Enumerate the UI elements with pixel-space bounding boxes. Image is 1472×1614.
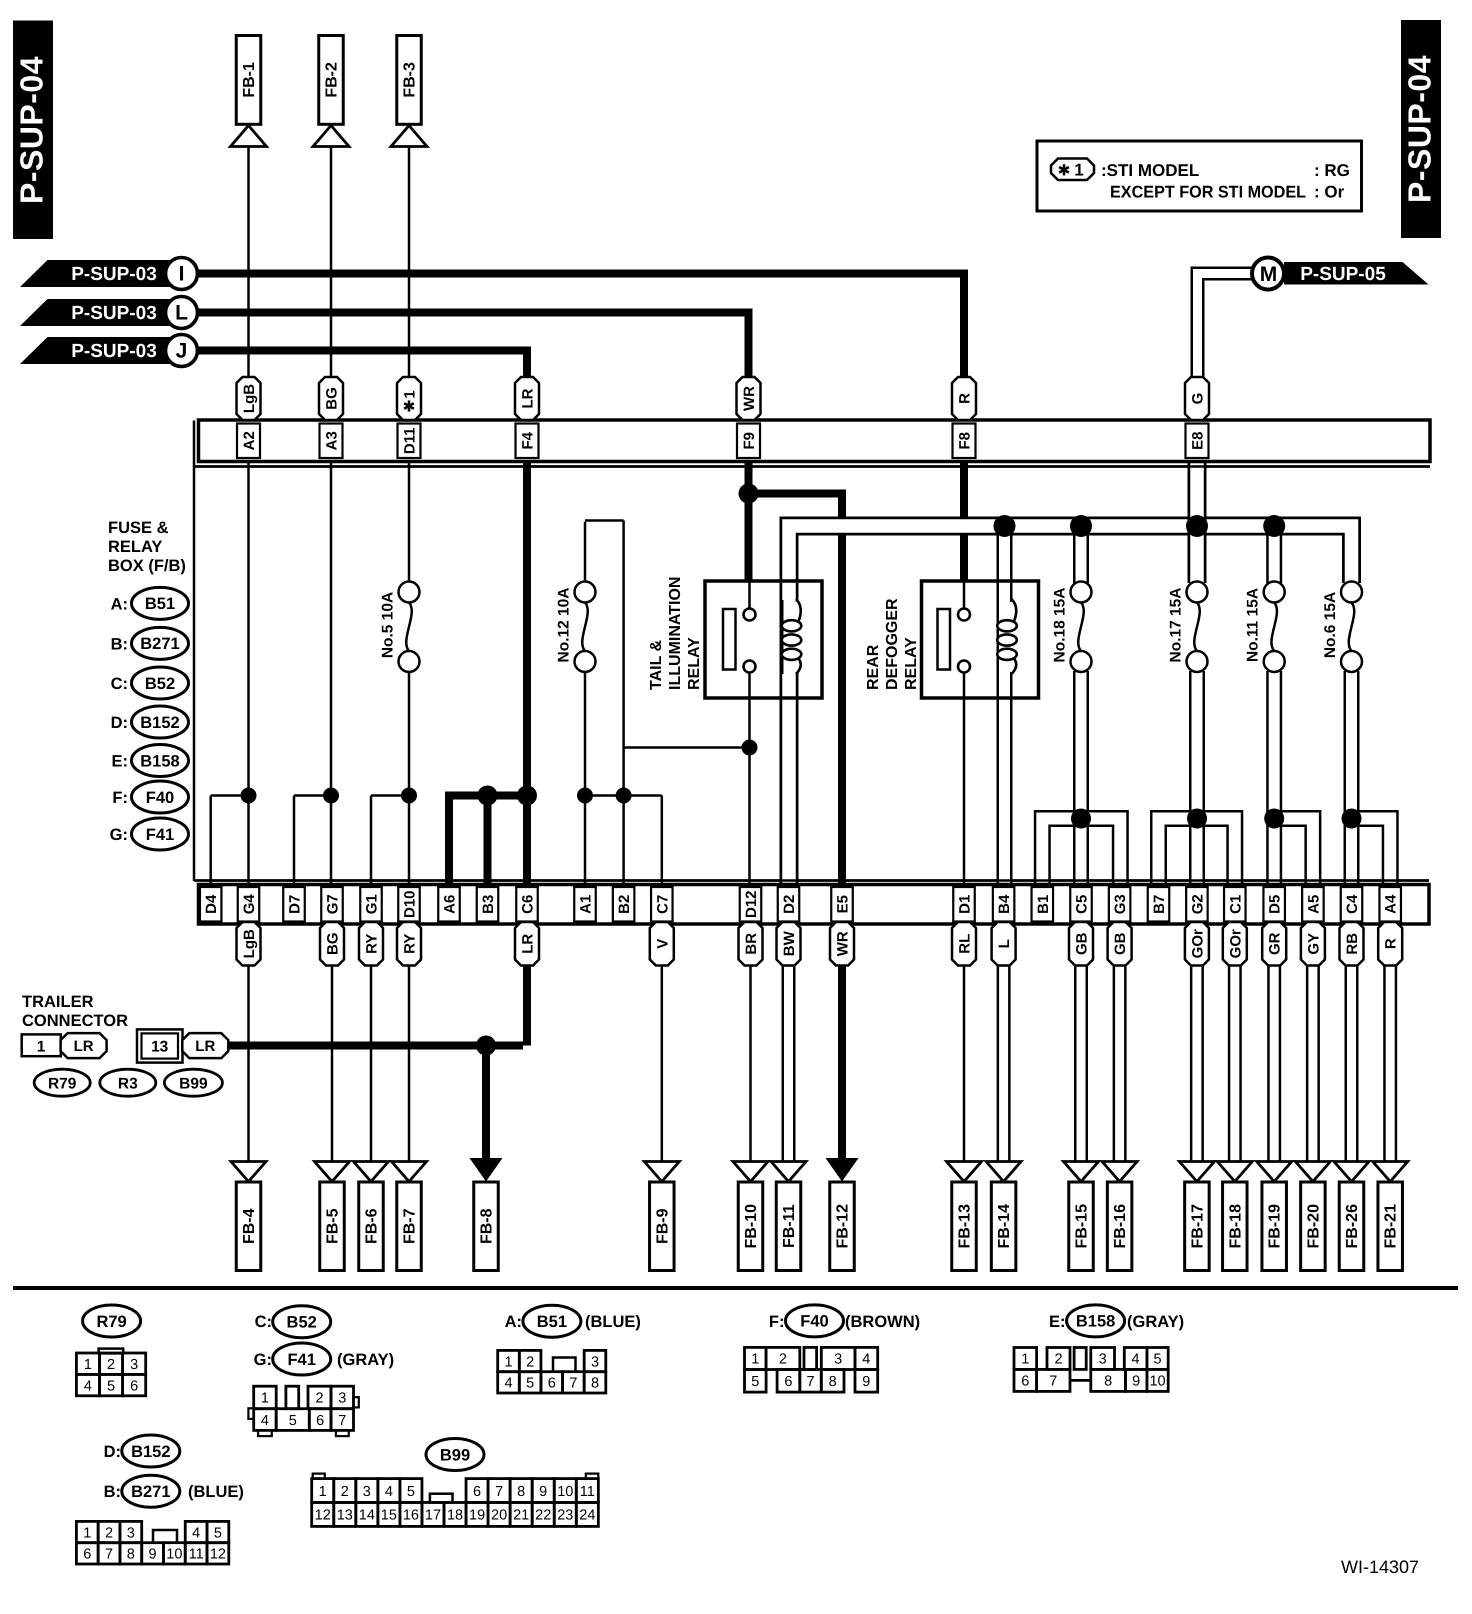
trailer tag LR	[61, 1033, 107, 1058]
svg-text:1: 1	[1021, 1352, 1029, 1368]
svg-text:2: 2	[107, 1357, 115, 1373]
svg-text:BOX (F/B): BOX (F/B)	[108, 557, 186, 575]
svg-text:1: 1	[402, 390, 419, 398]
connector FB-11	[771, 1162, 806, 1182]
svg-text:2: 2	[526, 1354, 534, 1370]
svg-text:22: 22	[535, 1508, 551, 1524]
connector FB-13	[947, 1162, 982, 1182]
svg-text:12: 12	[210, 1547, 226, 1563]
pin B7	[1148, 887, 1170, 922]
wire I banner to F8 (thick)	[198, 270, 964, 278]
wire E5 to FB-12 (thick)	[838, 966, 846, 1161]
pin A4	[1379, 887, 1401, 922]
junction rail No.17	[1186, 515, 1208, 537]
svg-text:5: 5	[751, 1374, 759, 1390]
pinout grid R79	[99, 1349, 124, 1354]
connector FB-1	[236, 36, 261, 125]
svg-text:F8: F8	[957, 432, 974, 450]
svg-text:P-SUP-04: P-SUP-04	[14, 56, 50, 204]
trailer pin 1 box	[22, 1034, 61, 1056]
wire color tag WR below bus	[830, 922, 854, 966]
pinout grid F40	[745, 1347, 767, 1369]
svg-text:B2: B2	[616, 895, 633, 914]
fuse box left edge	[193, 421, 196, 882]
svg-text:RELAY: RELAY	[903, 637, 920, 690]
svg-text:4: 4	[84, 1378, 92, 1394]
svg-text:BR: BR	[743, 933, 760, 955]
svg-text:24: 24	[579, 1508, 595, 1524]
pin F4	[516, 424, 539, 459]
svg-text:5: 5	[214, 1525, 222, 1541]
svg-text:FB-11: FB-11	[781, 1204, 798, 1248]
svg-text:1: 1	[319, 1484, 327, 1500]
svg-text:13: 13	[337, 1508, 353, 1524]
svg-text:FUSE &: FUSE &	[108, 519, 169, 537]
svg-text:8: 8	[591, 1376, 599, 1392]
junction branch G2	[1187, 809, 1207, 829]
junction branch C4	[1342, 809, 1362, 829]
svg-text:G7: G7	[325, 894, 342, 914]
svg-text:6: 6	[548, 1376, 556, 1392]
svg-text:4: 4	[261, 1413, 269, 1429]
wire C6 to trailer connector (thick)	[523, 966, 531, 1046]
wire color tag LgB below bus	[237, 922, 261, 966]
pinout grid B271	[76, 1521, 98, 1542]
svg-text:FB-14: FB-14	[996, 1204, 1013, 1249]
svg-text:7: 7	[105, 1547, 113, 1563]
junction C6	[517, 786, 537, 806]
pin B4	[993, 887, 1015, 922]
junction rail B4	[994, 515, 1016, 537]
svg-text:6: 6	[473, 1484, 481, 1500]
wire color tag V below bus	[650, 922, 674, 966]
svg-text:8: 8	[127, 1547, 135, 1563]
svg-text:B271: B271	[140, 635, 179, 653]
wire color tag R below bus	[1378, 922, 1402, 966]
wire branch to B3 (thick)	[484, 796, 492, 887]
upper bus lower rail line	[194, 465, 1430, 468]
pin D10	[398, 887, 420, 922]
svg-text:11: 11	[580, 1484, 595, 1500]
svg-text:: RG: : RG	[1314, 161, 1350, 180]
svg-text:GY: GY	[1305, 933, 1322, 955]
svg-text:D5: D5	[1267, 895, 1284, 914]
svg-text:1: 1	[83, 1525, 91, 1541]
connector ref R79 pinout label	[83, 1305, 141, 1337]
connector ref C: B52	[273, 1306, 331, 1338]
svg-text:P-SUP-03: P-SUP-03	[71, 341, 157, 362]
connector FB-6	[354, 1162, 389, 1182]
wire color tag LR at top	[515, 377, 539, 420]
wire color tag G at top	[1185, 377, 1209, 420]
svg-text:FB-21: FB-21	[1383, 1204, 1400, 1249]
svg-text:A:: A:	[505, 1313, 522, 1331]
svg-text:R: R	[1383, 938, 1400, 949]
svg-text:ILLUMINATION: ILLUMINATION	[667, 577, 684, 690]
junction D12	[742, 740, 758, 756]
wire G7 to FB-5	[331, 966, 334, 1163]
svg-text:No.17 15A: No.17 15A	[1168, 588, 1185, 663]
svg-text:2: 2	[779, 1352, 787, 1368]
wire D1 to FB-13	[963, 966, 966, 1163]
pin D11	[398, 424, 421, 459]
connector FB-9	[644, 1162, 679, 1182]
svg-text:E8: E8	[1190, 432, 1207, 450]
wire B4 to FB-14 (hollow)	[997, 964, 1011, 1162]
svg-text:D:: D:	[111, 714, 128, 732]
svg-text:E:: E:	[1049, 1313, 1066, 1331]
svg-text:23: 23	[557, 1508, 573, 1524]
pin E5	[831, 887, 853, 922]
svg-text:R3: R3	[118, 1076, 138, 1093]
wire J banner to F4 (thick)	[198, 347, 527, 355]
svg-text:R79: R79	[96, 1313, 126, 1331]
wire E8 to fuse No.17 (hollow)	[1188, 463, 1207, 583]
fuse No.5 10A	[408, 582, 411, 584]
junction A1	[577, 788, 593, 804]
connector FB-7	[392, 1162, 427, 1182]
connector FB-12	[826, 1158, 859, 1182]
svg-text:6: 6	[83, 1547, 91, 1563]
connector FB-20	[1295, 1162, 1330, 1182]
svg-text:G:: G:	[110, 826, 128, 844]
svg-text:FB-9: FB-9	[654, 1208, 671, 1244]
connector FB-21	[1373, 1162, 1408, 1182]
wire F9 branch to E5 (thick)	[749, 490, 843, 498]
svg-text:3: 3	[591, 1354, 599, 1370]
svg-text:4: 4	[1132, 1352, 1140, 1368]
fuse No.18 15A	[1080, 582, 1083, 584]
wire color tag WR at top	[737, 377, 761, 420]
svg-text:8: 8	[517, 1484, 525, 1500]
svg-text:17: 17	[425, 1508, 441, 1524]
svg-text:15: 15	[381, 1508, 397, 1524]
svg-text:F41: F41	[146, 826, 174, 844]
pin A1	[574, 887, 596, 922]
wire color tag R at top	[952, 377, 976, 420]
svg-text:: Or: : Or	[1314, 183, 1345, 202]
svg-text:2: 2	[341, 1484, 349, 1500]
svg-text:6: 6	[130, 1378, 138, 1394]
junction G7	[323, 788, 339, 804]
svg-text:12: 12	[315, 1508, 331, 1524]
svg-text:BG: BG	[325, 933, 342, 956]
svg-text:LR: LR	[74, 1038, 94, 1055]
off-page connector I from P-SUP-03	[20, 260, 182, 287]
wire C4 to FB-26 (hollow)	[1345, 964, 1359, 1162]
svg-text:FB-16: FB-16	[1112, 1204, 1129, 1249]
connector ref B99	[164, 1069, 222, 1096]
pin B1	[1032, 887, 1054, 922]
connector FB-18	[1217, 1162, 1252, 1182]
pin D5	[1263, 887, 1285, 922]
pin G2	[1186, 887, 1208, 922]
svg-text:A:: A:	[111, 595, 128, 613]
wire A3 to G7/D7	[330, 461, 333, 886]
svg-text:LgB: LgB	[241, 929, 258, 958]
svg-text:(BLUE): (BLUE)	[188, 1483, 244, 1501]
svg-text:E:: E:	[112, 753, 129, 771]
wire D11 to fuse No.5	[408, 461, 411, 583]
svg-text:EXCEPT FOR STI MODEL: EXCEPT FOR STI MODEL	[1110, 183, 1306, 202]
right page label P-SUP-04	[1401, 20, 1441, 238]
wire G1 to FB-6	[370, 966, 373, 1163]
wire A2 to G4/D4	[247, 461, 250, 886]
svg-text:B51: B51	[537, 1313, 567, 1331]
connector ref B: B271 (BLUE)	[122, 1475, 180, 1507]
svg-text:A1: A1	[578, 895, 595, 914]
wire color tag BR below bus	[739, 922, 763, 966]
pinout grid F41	[254, 1386, 277, 1409]
svg-text:4: 4	[385, 1484, 393, 1500]
svg-text:M: M	[1260, 263, 1278, 286]
svg-text:(BROWN): (BROWN)	[845, 1313, 920, 1331]
svg-text:6: 6	[784, 1374, 792, 1390]
svg-text:GB: GB	[1074, 932, 1091, 955]
wire color tag GR below bus	[1262, 922, 1286, 966]
pin C7	[651, 887, 673, 922]
fuse No.17 15A	[1196, 582, 1199, 584]
svg-text:TRAILER: TRAILER	[22, 993, 94, 1011]
relay tail & illumination (contact+coil)	[705, 581, 822, 698]
wire C5 to FB-15 (hollow)	[1074, 964, 1088, 1162]
legend note box *1 STI MODEL	[1037, 141, 1362, 211]
svg-text:7: 7	[807, 1374, 815, 1390]
svg-text:4: 4	[192, 1525, 200, 1541]
svg-text:GOr: GOr	[1227, 929, 1244, 958]
svg-text:G1: G1	[364, 894, 381, 914]
wire rail to rear defogger coil to B4 (hollow)	[997, 526, 1013, 887]
wire color tag LgB at top	[237, 377, 261, 420]
svg-text:5: 5	[526, 1376, 534, 1392]
wire branch B7-C1 (hollow)	[1159, 819, 1235, 887]
svg-text:D12: D12	[743, 890, 760, 918]
upper bus lower rail line redraw	[194, 465, 1430, 468]
fuse No.12 10A	[584, 582, 587, 584]
svg-text:FB-17: FB-17	[1189, 1204, 1206, 1249]
svg-text:FB-5: FB-5	[325, 1208, 342, 1244]
svg-text:LR: LR	[520, 934, 537, 954]
wire C1 to FB-18 (hollow)	[1228, 964, 1242, 1162]
svg-text:B52: B52	[287, 1314, 317, 1332]
wire D5 to FB-19 (hollow)	[1267, 964, 1281, 1162]
wire relay contact branch	[624, 746, 750, 749]
svg-text:(BLUE): (BLUE)	[585, 1313, 641, 1331]
svg-text:A2: A2	[241, 431, 258, 450]
wire FB-3 to D11	[408, 147, 411, 378]
svg-text:B152: B152	[131, 1443, 170, 1461]
svg-text:R79: R79	[48, 1076, 77, 1093]
svg-text:B152: B152	[140, 714, 179, 732]
separator line	[13, 1286, 1458, 1290]
wire branch D5-A5 (hollow)	[1274, 819, 1313, 887]
svg-text:LR: LR	[195, 1038, 215, 1055]
wire color tag RY below bus	[397, 922, 421, 966]
svg-text:R: R	[957, 393, 974, 404]
svg-text:C4: C4	[1344, 894, 1361, 914]
svg-text:C:: C:	[111, 675, 128, 693]
wire D12 to FB-10	[749, 966, 752, 1163]
svg-text:2: 2	[1054, 1352, 1062, 1368]
pinout grid B99	[313, 1474, 325, 1479]
svg-text:3: 3	[1099, 1352, 1107, 1368]
svg-text:A5: A5	[1305, 895, 1322, 914]
wire color tag BG below bus	[320, 922, 344, 966]
svg-text:10: 10	[557, 1484, 573, 1500]
svg-text:1: 1	[504, 1354, 512, 1370]
wire color tag LR below bus	[515, 922, 539, 966]
svg-text:3: 3	[127, 1525, 135, 1541]
svg-text:5: 5	[107, 1378, 115, 1394]
connector FB-4	[231, 1162, 266, 1182]
wire A5 to FB-20 (hollow)	[1306, 964, 1320, 1162]
svg-text:C7: C7	[654, 895, 671, 914]
svg-text:G: G	[1190, 393, 1207, 405]
wire color tag BW below bus	[777, 922, 801, 966]
pin C1	[1224, 887, 1246, 922]
trailer tag LR 2	[182, 1033, 228, 1058]
svg-text:1: 1	[1074, 160, 1083, 179]
svg-text:1: 1	[37, 1039, 46, 1056]
wire L banner to F9 (thick)	[198, 309, 749, 317]
wire color tag GOr below bus	[1223, 922, 1247, 966]
wire branch B1-G3 (hollow)	[1042, 819, 1120, 887]
wire C7 to FB-9	[661, 966, 664, 1163]
pin C4	[1341, 887, 1363, 922]
svg-text:B3: B3	[480, 895, 497, 914]
svg-text:P-SUP-04: P-SUP-04	[1402, 55, 1438, 203]
wire tail relay contact to D12	[748, 672, 751, 886]
connector FB-2	[319, 36, 344, 125]
off-page connector L from P-SUP-03	[20, 299, 182, 326]
svg-text:F:: F:	[769, 1313, 785, 1331]
wire color tag BG at top	[319, 377, 343, 420]
svg-text:9: 9	[539, 1484, 547, 1500]
svg-text:14: 14	[359, 1508, 375, 1524]
svg-text:FB-2: FB-2	[324, 62, 341, 98]
junction B3	[478, 786, 498, 806]
wire G4 to FB-4	[247, 966, 250, 1163]
svg-text:RELAY: RELAY	[108, 538, 162, 556]
junction D10	[401, 788, 417, 804]
svg-text:RY: RY	[364, 934, 381, 954]
svg-text:21: 21	[513, 1508, 529, 1524]
svg-text:D7: D7	[287, 895, 304, 914]
wire fuse No.11 to D5 (hollow)	[1266, 671, 1282, 886]
svg-text:I: I	[179, 263, 185, 286]
svg-text:FB-4: FB-4	[241, 1208, 258, 1244]
pin F8	[953, 424, 976, 459]
svg-text:A4: A4	[1383, 894, 1400, 914]
svg-text:BG: BG	[324, 387, 341, 410]
wire rail to fuse No.11 (hollow)	[1266, 526, 1282, 584]
junction branch D5	[1264, 809, 1284, 829]
svg-text:G4: G4	[241, 894, 258, 915]
wire color tag RY below bus	[359, 922, 383, 966]
svg-text:7: 7	[569, 1376, 577, 1392]
connector ref B99 pinout label	[426, 1439, 484, 1471]
connector FB-8	[470, 1158, 503, 1182]
wire color tag GOr below bus	[1185, 922, 1209, 966]
svg-text:V: V	[654, 939, 671, 949]
connector FB-5	[315, 1162, 350, 1182]
svg-text:8: 8	[1104, 1374, 1112, 1390]
pin D1	[953, 887, 975, 922]
svg-text:GR: GR	[1267, 932, 1284, 955]
svg-text:1: 1	[261, 1391, 269, 1407]
svg-text:B4: B4	[996, 894, 1013, 914]
pinout grid B51	[498, 1350, 520, 1371]
pin B2	[613, 887, 635, 922]
pin G1	[360, 887, 382, 922]
trailer pin 13 box	[137, 1029, 183, 1062]
svg-text:G:: G:	[254, 1351, 272, 1369]
svg-text:B99: B99	[179, 1076, 208, 1093]
pin A5	[1302, 887, 1324, 922]
svg-text:CONNECTOR: CONNECTOR	[22, 1012, 128, 1030]
connector FB-14	[986, 1162, 1021, 1182]
pin A6	[438, 887, 460, 922]
wire fuse No.12 to A1	[584, 671, 587, 886]
svg-text:D2: D2	[781, 895, 798, 914]
svg-text:9: 9	[862, 1374, 870, 1390]
svg-text:7: 7	[338, 1413, 346, 1429]
svg-text:2: 2	[105, 1525, 113, 1541]
svg-text:REAR: REAR	[865, 644, 882, 690]
wire color tag *1 at top	[397, 377, 421, 420]
junction G4	[241, 788, 257, 804]
svg-text:A3: A3	[324, 431, 341, 450]
svg-text:3: 3	[338, 1391, 346, 1407]
svg-text:F:: F:	[112, 789, 128, 807]
svg-text:G2: G2	[1189, 894, 1206, 914]
pin D2	[778, 887, 800, 922]
svg-text:No.12 10A: No.12 10A	[556, 588, 573, 663]
svg-text::STI MODEL: :STI MODEL	[1101, 161, 1199, 180]
svg-text:WR: WR	[835, 931, 852, 956]
svg-text:G3: G3	[1112, 894, 1129, 914]
wire FB-1 to A2	[247, 147, 250, 378]
svg-text:(GRAY): (GRAY)	[1127, 1313, 1184, 1331]
svg-text:P-SUP-03: P-SUP-03	[71, 264, 157, 285]
wire fuse No.17 to G2 (hollow)	[1189, 671, 1205, 886]
junction rail No.11	[1263, 515, 1285, 537]
svg-text:FB-7: FB-7	[402, 1208, 419, 1244]
wire fuse No.6 to C4 (hollow)	[1344, 671, 1360, 886]
wire branch C4-A4 (hollow)	[1352, 819, 1391, 887]
svg-text:FB-26: FB-26	[1344, 1204, 1361, 1249]
svg-text:B158: B158	[140, 752, 179, 770]
pin E8	[1186, 424, 1209, 459]
svg-text:LR: LR	[520, 388, 537, 408]
wire F9 to tail relay (thick)	[745, 461, 753, 581]
svg-text:L: L	[996, 939, 1013, 948]
svg-text:D4: D4	[203, 894, 220, 914]
fuse No.6 15A	[1350, 582, 1353, 584]
svg-text:7: 7	[1049, 1374, 1057, 1390]
junction FB-8 branch	[476, 1036, 496, 1056]
svg-text:4: 4	[504, 1376, 512, 1392]
svg-text:D11: D11	[402, 427, 419, 454]
pinout grid B158	[1014, 1348, 1037, 1370]
junction rail No.18	[1070, 515, 1092, 537]
svg-text:10: 10	[166, 1547, 182, 1563]
lower bus upper rail line redraw	[194, 879, 1429, 882]
svg-text:7: 7	[495, 1484, 503, 1500]
connector ref R79	[34, 1069, 90, 1096]
svg-text:D10: D10	[402, 890, 419, 918]
svg-text:19: 19	[469, 1508, 485, 1524]
